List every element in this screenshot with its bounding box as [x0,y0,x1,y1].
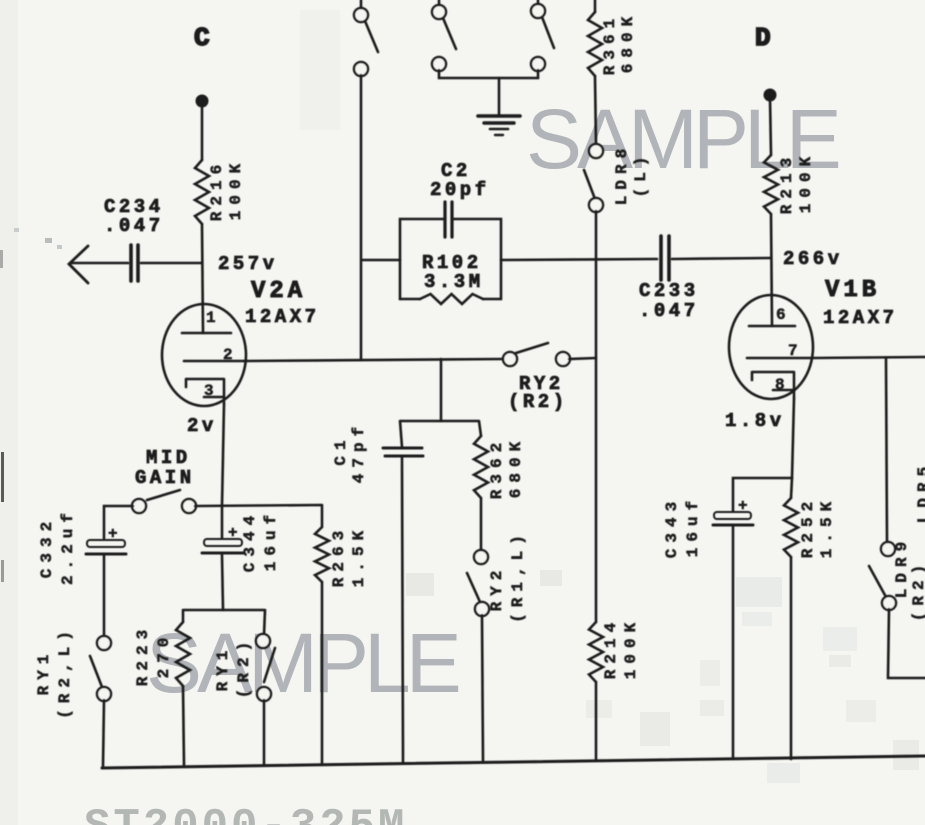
svg-text:LDR8: LDR8 [613,143,631,205]
svg-text:R216: R216 [208,159,226,221]
resistor R361 [588,0,637,76]
capacitor C343 (electrolytic) [663,495,753,558]
svg-text:(L): (L) [632,151,650,198]
svg-text:R263: R263 [330,525,348,587]
wire: RY1(R2) to rail [263,700,266,764]
wire: RY1(R2,L) to rail [103,700,104,767]
svg-text:.047: .047 [104,215,164,237]
resistor R263 [315,525,368,587]
svg-text:266v: 266v [783,248,843,270]
svg-text:12AX7: 12AX7 [823,307,898,329]
wire: R361 to LDR8 [595,76,596,145]
LDR8 contact [584,143,650,212]
svg-text:16uf: 16uf [684,495,702,557]
switch contact S1 (top left) [354,0,378,76]
wire: feed from S1 line to R102 box [362,259,400,262]
svg-text:100K: 100K [622,617,640,679]
resistor R214 [589,617,640,682]
wire: RY2 to LDR8 line [569,358,596,359]
svg-text:7: 7 [788,342,798,360]
junction dot node C [196,95,209,108]
svg-text:D: D [755,23,771,53]
wire: V1B grid junction down to LDR9 [886,358,887,543]
svg-text:2: 2 [223,346,233,364]
svg-text:3.3M: 3.3M [424,271,484,293]
svg-text:680K: 680K [619,11,637,73]
svg-text:V2A: V2A [251,278,306,305]
wire: arrow to C234 [71,262,128,265]
wire: R102 box to C233 [501,259,657,260]
wire: C344 to R223/RY1 box [222,555,223,610]
svg-text:C344: C344 [241,510,259,572]
svg-text:1.5K: 1.5K [350,525,368,587]
capacitor C2 [443,202,446,237]
signal arrow (input/output at C) [69,246,88,283]
svg-text:270: 270 [155,632,173,679]
wire: R263 to rail [321,582,324,763]
switch MID GAIN [132,490,196,513]
svg-text:GAIN: GAIN [135,467,195,489]
wire: C233 to V1B plate node [672,258,771,259]
relay contact RY2 (R2) [503,343,570,413]
wire: C1 down to rail [402,458,403,762]
wire: V1B grid to right edge [812,357,925,358]
svg-text:R252: R252 [799,496,817,558]
svg-text:1.5K: 1.5K [818,496,836,558]
resistor R213 [764,151,815,214]
svg-text:(R1,L): (R1,L) [509,529,527,623]
relay contact RY1 (R2,L) [35,625,111,719]
ground [478,78,520,135]
wire: junction to C343 [733,478,792,511]
wire: C332 to RY1(R2,L) [103,556,106,637]
svg-text:3: 3 [204,382,214,400]
wire: mid-gain right to R263 [195,505,322,527]
tube V2A [162,278,320,406]
svg-text:C: C [194,23,210,53]
svg-text:47pf: 47pf [350,421,368,483]
resistor R223 [134,622,190,686]
relay contact RY2 (R1,L) [467,529,527,623]
svg-text:100K: 100K [227,158,245,220]
wire: R252 to rail [790,557,793,759]
svg-text:680K: 680K [507,436,525,498]
svg-text:12AX7: 12AX7 [245,306,320,328]
svg-text:2.2uf: 2.2uf [59,507,77,585]
wire: V1B cathode down to C343/R252 junction [792,398,794,478]
wire: RY2(R1,L) to rail [482,615,483,762]
LDR9 contact [869,536,925,621]
svg-text:R223: R223 [134,624,152,686]
wire: S1 to grid row [360,75,363,360]
wire: R362 to RY2(R1,L) [480,498,483,551]
capacitor C344 (electrolytic) [202,506,280,572]
svg-text:8: 8 [775,376,785,394]
capacitor C332 (electrolytic) [38,507,126,585]
wire: grid row junction down to C1/R362 box [440,359,443,421]
switch contact S2 (top middle) [432,0,456,71]
wire: S3 to ground bus [537,70,540,78]
wire: S2 to ground bus [439,70,538,78]
wire: C343 to rail [732,527,735,759]
wire: R214 to rail [595,682,598,760]
wire: mid-gain left to C332 [104,506,133,538]
resistor R252 [784,478,836,558]
svg-text:20pf: 20pf [430,179,490,201]
svg-text:(R2): (R2) [508,391,568,413]
wire: node D to R213 [770,98,771,155]
svg-text:RY2: RY2 [488,565,506,612]
svg-text:R361: R361 [601,13,619,75]
wire: node C to R216 [201,104,204,160]
tube V1B [729,277,898,399]
svg-text:V1B: V1B [825,277,880,304]
wire: R223 to rail [183,686,184,765]
switch contact S3 (top right) [531,0,554,71]
resistor R362 [474,436,525,499]
svg-text:C343: C343 [663,496,681,558]
svg-text:ST2000-325M: ST2000-325M [84,802,407,825]
svg-text:R213: R213 [778,152,796,214]
svg-text:RY1: RY1 [35,649,53,696]
svg-text:257v: 257v [218,253,278,275]
capacitor C234 [104,196,164,281]
svg-text:SAMPLE: SAMPLE [146,616,459,710]
svg-text:(R2,L): (R2,L) [56,625,74,719]
wire: R213 to V1B plate [771,214,772,326]
capacitor C233 [639,236,699,322]
svg-text:2v: 2v [187,415,217,437]
svg-text:(R2): (R2) [235,636,253,698]
svg-text:(R2): (R2) [910,559,925,621]
svg-text:C233: C233 [639,280,699,302]
wire: ground rail (bottom) [102,756,925,768]
svg-text:1.8v: 1.8v [725,410,785,432]
svg-text:R362: R362 [488,437,506,499]
svg-text:C1: C1 [332,434,350,465]
svg-text:6: 6 [776,306,786,324]
svg-text:C332: C332 [38,516,56,578]
resistor R216 [195,158,245,224]
wire: LDR8 down to R214 [595,211,598,622]
svg-text:R214: R214 [602,617,620,679]
svg-text:1: 1 [206,309,216,327]
svg-text:MID: MID [146,447,191,469]
junction dot node D [764,89,777,102]
wire: V2A cathode down [222,404,224,506]
wire: box top R223/RY1 [183,610,265,635]
svg-text:100K: 100K [797,151,815,213]
wire: R216 to V2A plate [202,224,203,333]
svg-text:.047: .047 [639,300,699,322]
capacitor C1 [332,421,423,483]
svg-text:LDR9: LDR9 [893,536,911,598]
box C2/R102 [400,160,501,304]
relay contact RY1 (R2) [214,634,275,701]
svg-text:RY1: RY1 [214,645,232,692]
wire: V2A grid to RY2 [244,359,504,361]
svg-text:16uf: 16uf [262,509,280,571]
wire: box top C1/R362 [400,421,481,447]
svg-text:LDR5: LDR5 [915,461,925,523]
wire: C234 to plate node [141,262,202,265]
wire: LDR9 to sub-box corner [888,609,925,678]
